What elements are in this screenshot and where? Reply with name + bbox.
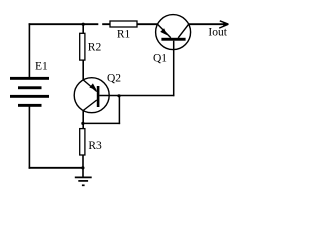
transistor Q1	[153, 15, 191, 65]
wire Q1 base lead (vertical)	[173, 41, 175, 96]
node A junction dot (top rail / R2)	[82, 23, 85, 26]
svg-text:Q2: Q2	[107, 72, 121, 84]
wire bottom rail	[29, 167, 83, 169]
wire top rail left segment	[29, 23, 110, 25]
wire R2 to Q2 emitter	[82, 60, 84, 81]
svg-text:R3: R3	[88, 140, 102, 152]
wire Q2 base to Q1 base (horizontal)	[99, 95, 174, 97]
ground	[75, 168, 92, 185]
wire R3 to ground	[82, 155, 84, 169]
resistor R1	[110, 21, 137, 41]
transistor Q2	[74, 72, 121, 112]
wire Q1 collector to output arrow	[189, 23, 228, 25]
svg-text:Q1: Q1	[153, 53, 167, 65]
wire R2 top stub	[82, 23, 84, 33]
svg-text:R1: R1	[117, 29, 131, 41]
svg-text:Iout: Iout	[208, 27, 227, 39]
node D junction dot (bottom rail / ground)	[81, 166, 84, 169]
wire base net down leg	[118, 96, 120, 125]
wire base net to R3 top (horizontal)	[83, 122, 121, 124]
node B junction dot (base net)	[117, 94, 120, 97]
svg-text:E1: E1	[35, 61, 48, 73]
wire left rail bottom (battery to bottom corner)	[28, 106, 30, 169]
output arrowhead Iout	[208, 21, 228, 39]
resistor R2	[80, 33, 102, 60]
svg-text:R2: R2	[88, 41, 102, 53]
node C junction dot (Q2 collector / R3 top)	[81, 122, 84, 125]
wire Q2 collector down	[82, 110, 84, 129]
resistor R3	[80, 129, 102, 155]
wire left rail top (corner to battery)	[28, 23, 30, 77]
wire R1 to Q1 emitter	[137, 23, 158, 25]
battery E1	[10, 61, 49, 107]
